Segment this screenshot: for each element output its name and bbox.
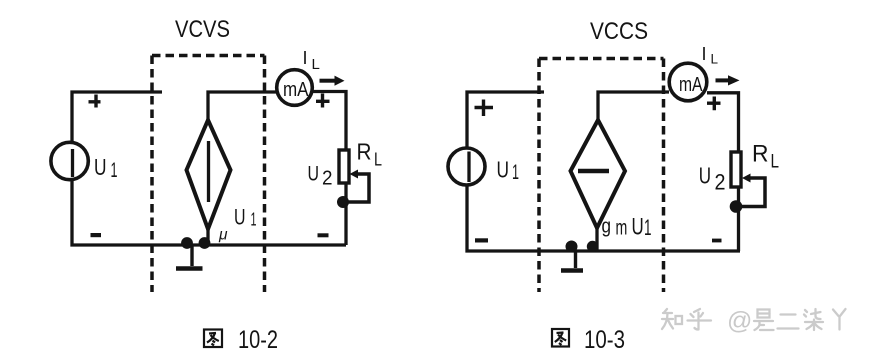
svg-text:2: 2: [715, 170, 726, 195]
svg-text:L: L: [312, 56, 320, 73]
svg-text:mA: mA: [679, 74, 703, 96]
svg-text:L: L: [711, 52, 719, 67]
svg-text:U: U: [94, 154, 107, 180]
svg-text:@: @: [727, 307, 752, 335]
svg-text:μ: μ: [218, 227, 228, 244]
svg-text:U: U: [234, 205, 246, 230]
svg-text:VCCS: VCCS: [590, 18, 648, 45]
svg-text:L: L: [771, 152, 780, 173]
svg-text:10-3: 10-3: [584, 326, 625, 354]
svg-text:1: 1: [111, 159, 118, 182]
svg-text:1: 1: [644, 215, 652, 240]
svg-text:L: L: [374, 149, 382, 170]
svg-text:R: R: [357, 139, 372, 165]
svg-text:U: U: [497, 157, 510, 183]
svg-text:VCVS: VCVS: [175, 16, 230, 43]
svg-text:U: U: [699, 163, 711, 189]
svg-text:I: I: [303, 48, 308, 68]
svg-text:1: 1: [251, 210, 257, 230]
svg-text:2: 2: [322, 168, 333, 190]
svg-text:U: U: [308, 162, 320, 186]
svg-text:1: 1: [512, 161, 519, 184]
svg-text:U: U: [632, 213, 644, 240]
svg-text:mA: mA: [283, 79, 309, 101]
svg-text:10-2: 10-2: [238, 326, 278, 354]
svg-text:R: R: [752, 141, 769, 168]
svg-text:I: I: [702, 44, 707, 64]
svg-text:m: m: [616, 216, 628, 239]
svg-text:g: g: [602, 215, 612, 238]
